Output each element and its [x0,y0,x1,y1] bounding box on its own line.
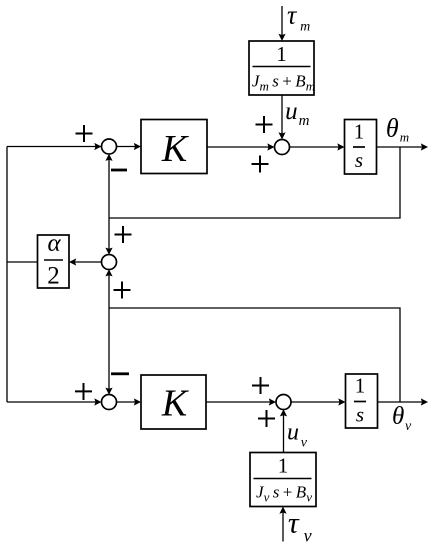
svg-text:m: m [299,113,310,129]
plus sign above-left of um sum [256,116,273,133]
wire theta_v feedback up-left [109,308,400,402]
plus sign above C2 [115,226,132,243]
svg-text:m: m [300,19,310,34]
wire mid rail C2 to C3 [108,272,110,392]
wire C2 to alpha block [72,261,102,263]
svg-text:Jv s + Bv: Jv s + Bv [256,483,312,505]
wire integrator output theta_v [378,401,426,403]
wire C3 to K2 [116,401,138,403]
svg-text:1: 1 [276,42,287,66]
wire alpha block to left rail [7,261,38,263]
svg-text:K: K [161,128,189,170]
svg-text:u: u [285,98,298,125]
svg-text:u: u [287,420,299,446]
svg-text:Jm s + Bm: Jm s + Bm [252,72,315,94]
svg-text:m: m [400,130,409,145]
svg-text:v: v [301,435,308,450]
svg-text:τ: τ [288,506,300,539]
svg-text:v: v [304,526,312,546]
wire K2 to sum uv [206,401,273,403]
wire theta_m feedback down-left [109,147,400,218]
wire mid rail C1 to C2 [108,157,110,252]
block 1/(Jm s+Bm) [249,41,314,95]
block K2 [141,375,206,429]
summing junction C2 (middle) [102,255,117,270]
wire sum to integrator bottom [291,401,343,403]
wire um: block to sum [281,95,283,137]
svg-text:α: α [47,230,61,257]
wire K1 to sum um [207,146,272,148]
svg-text:K: K [161,382,189,424]
plus sign below C2 [114,282,131,299]
block 1/(Jv s+Bv) [250,453,316,507]
svg-text:θ: θ [392,403,404,430]
svg-text:2: 2 [47,263,60,290]
wire C1 to K1 [116,146,138,148]
block alpha/2 [38,235,70,288]
wire tau_m input [281,6,283,38]
svg-text:1: 1 [355,374,366,398]
block 1/s top [345,120,377,175]
svg-text:θ: θ [386,114,399,143]
minus sign above C3 [111,372,129,375]
wire uv: block to sum [283,413,285,453]
plus sign above-left of uv sum [252,377,269,394]
wire integrator output theta_m [377,146,426,148]
plus sign bottom-left sum [75,383,92,400]
summing junction C5 (uv) [276,395,291,410]
block 1/s bottom [346,374,378,428]
plus sign below-left of um sum [252,156,269,173]
minus sign below C1 [111,169,127,172]
svg-text:v: v [405,419,412,434]
plus sign top-left sum [76,125,93,142]
summing junction C4 (um) [275,140,290,155]
summing junction C3 (slave) [102,395,117,410]
plus sign below-left of uv sum [258,410,275,427]
wire left rail to bottom sum [7,401,99,403]
wire sum to integrator top [289,146,341,148]
svg-text:τ: τ [287,1,298,30]
svg-text:s: s [355,148,363,172]
block K1 [141,120,207,174]
svg-text:1: 1 [278,454,289,478]
left rail vertical [6,147,8,403]
summing junction C1 (master) [102,139,117,154]
svg-text:1: 1 [354,120,365,144]
wire tau_v input [282,510,284,542]
svg-text:s: s [356,403,364,427]
wire left rail to top sum [7,146,99,148]
